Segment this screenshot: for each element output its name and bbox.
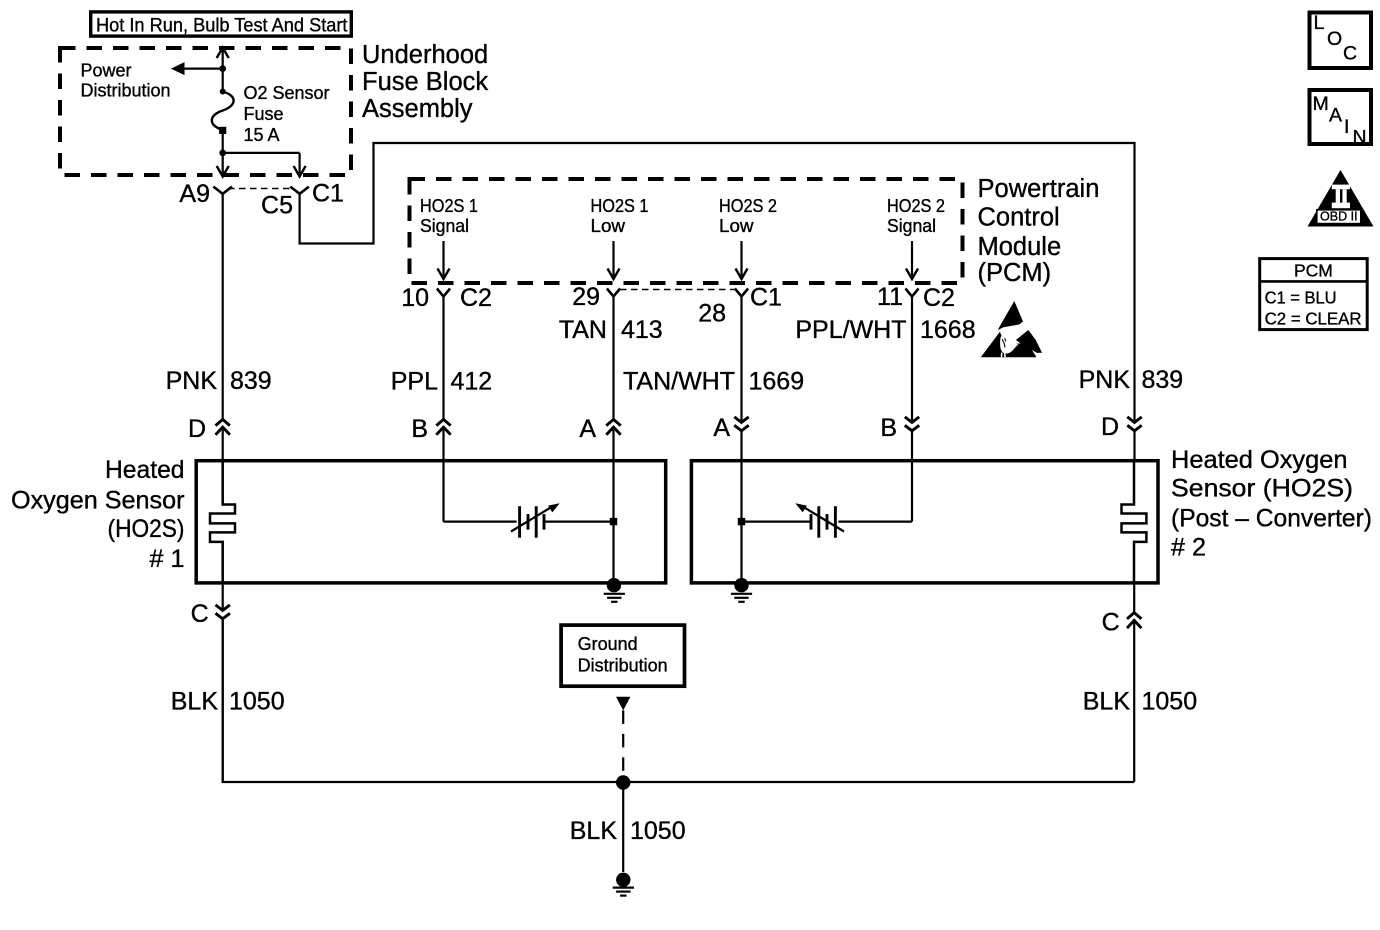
svg-text:Module: Module — [978, 233, 1062, 261]
svg-text:PNK: PNK — [1079, 366, 1131, 394]
svg-text:D: D — [1101, 413, 1119, 441]
svg-text:PNK: PNK — [166, 367, 218, 395]
svg-text:HO2S 2: HO2S 2 — [887, 196, 945, 216]
svg-text:PPL: PPL — [391, 368, 438, 396]
svg-text:B: B — [880, 414, 897, 442]
svg-text:Oxygen Sensor: Oxygen Sensor — [11, 487, 185, 515]
svg-text:Power: Power — [81, 61, 132, 81]
svg-text:HO2S 2: HO2S 2 — [719, 196, 777, 216]
svg-text:PPL/WHT: PPL/WHT — [795, 316, 906, 344]
svg-text:C2 = CLEAR: C2 = CLEAR — [1265, 309, 1362, 329]
svg-text:Powertrain: Powertrain — [978, 175, 1100, 203]
svg-text:Heated: Heated — [105, 456, 185, 484]
svg-text:A: A — [713, 414, 730, 442]
svg-text:412: 412 — [451, 368, 493, 396]
svg-text:OBD II: OBD II — [1320, 210, 1358, 224]
svg-text:L: L — [1314, 12, 1325, 34]
svg-text:Control: Control — [978, 204, 1060, 232]
svg-text:Assembly: Assembly — [362, 95, 473, 123]
svg-text:(PCM): (PCM) — [978, 259, 1052, 287]
svg-text:C: C — [1102, 609, 1120, 637]
svg-text:BLK: BLK — [171, 688, 219, 716]
svg-text:(HO2S): (HO2S) — [108, 515, 185, 543]
svg-text:TAN: TAN — [559, 316, 607, 344]
svg-text:Ground: Ground — [578, 634, 638, 654]
svg-text:10: 10 — [401, 284, 429, 312]
svg-text:15 A: 15 A — [244, 125, 280, 145]
svg-text:Distribution: Distribution — [578, 656, 668, 676]
svg-text:I: I — [1344, 116, 1349, 138]
svg-text:O2 Sensor: O2 Sensor — [244, 83, 330, 103]
svg-text:C: C — [191, 600, 209, 628]
svg-text:11: 11 — [877, 283, 903, 311]
svg-text:A: A — [1329, 105, 1342, 127]
svg-text:Heated Oxygen: Heated Oxygen — [1171, 446, 1348, 474]
svg-text:A9: A9 — [179, 180, 210, 208]
svg-text:Underhood: Underhood — [362, 41, 488, 69]
svg-text:1050: 1050 — [1142, 688, 1198, 716]
svg-text:# 2: # 2 — [1171, 534, 1206, 562]
svg-text:C1 = BLU: C1 = BLU — [1265, 287, 1337, 307]
svg-text:Hot In Run, Bulb Test And Star: Hot In Run, Bulb Test And Start — [96, 16, 348, 37]
svg-text:D: D — [188, 415, 206, 443]
svg-text:# 1: # 1 — [149, 545, 184, 573]
svg-text:Distribution: Distribution — [81, 81, 171, 101]
svg-text:1669: 1669 — [749, 368, 805, 396]
svg-text:Signal: Signal — [887, 216, 936, 236]
svg-text:Low: Low — [591, 216, 627, 236]
svg-text:28: 28 — [698, 300, 726, 328]
svg-text:C1: C1 — [312, 180, 344, 208]
svg-text:C5: C5 — [261, 192, 293, 220]
svg-text:HO2S 1: HO2S 1 — [420, 196, 478, 216]
svg-text:A: A — [579, 415, 596, 443]
svg-text:839: 839 — [230, 367, 272, 395]
svg-text:TAN/WHT: TAN/WHT — [623, 368, 735, 396]
svg-text:C2: C2 — [923, 284, 955, 312]
svg-text:HO2S 1: HO2S 1 — [591, 196, 649, 216]
svg-text:C1: C1 — [750, 284, 782, 312]
svg-text:(Post – Converter): (Post – Converter) — [1171, 505, 1372, 533]
svg-text:1050: 1050 — [630, 817, 686, 845]
svg-text:Signal: Signal — [420, 216, 469, 236]
svg-text:M: M — [1313, 93, 1329, 115]
svg-text:1050: 1050 — [229, 688, 285, 716]
svg-text:BLK: BLK — [570, 817, 618, 845]
svg-text:PCM: PCM — [1294, 260, 1333, 280]
svg-text:C2: C2 — [460, 284, 492, 312]
svg-text:Low: Low — [719, 216, 755, 236]
svg-text:BLK: BLK — [1083, 688, 1131, 716]
svg-text:29: 29 — [572, 283, 600, 311]
svg-text:N: N — [1353, 127, 1367, 149]
svg-text:Sensor (HO2S): Sensor (HO2S) — [1171, 475, 1353, 503]
svg-text:839: 839 — [1142, 366, 1184, 394]
svg-text:Fuse Block: Fuse Block — [362, 68, 488, 96]
svg-text:O: O — [1327, 28, 1342, 50]
svg-text:1668: 1668 — [920, 316, 976, 344]
svg-text:B: B — [411, 415, 428, 443]
svg-text:Fuse: Fuse — [244, 104, 284, 124]
svg-text:C: C — [1343, 43, 1357, 65]
svg-text:413: 413 — [621, 316, 663, 344]
